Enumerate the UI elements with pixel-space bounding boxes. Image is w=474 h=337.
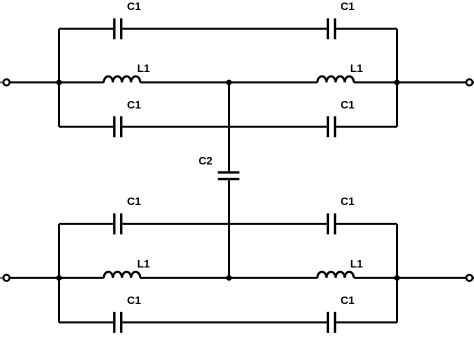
capacitor C1 (mid-left) plates <box>114 116 121 137</box>
wire: lower cap branch, right segment <box>336 126 397 128</box>
svg-text:C1: C1 <box>127 196 141 208</box>
svg-text:C1: C1 <box>340 295 354 307</box>
svg-text:C1: C1 <box>127 295 141 307</box>
wire: node F to port 4 <box>354 277 466 279</box>
wire: bottom rail mid segment (node D to node E to node F) <box>140 277 317 279</box>
node D junction dot <box>56 275 62 281</box>
wire: top-left vertical riser (node A) <box>58 29 60 127</box>
wire: bottom-left vertical riser (node D) <box>58 224 60 323</box>
svg-text:C1: C1 <box>127 1 141 13</box>
node C junction dot <box>394 80 400 86</box>
wire: lower section lower cap branch, middle segment <box>122 321 326 323</box>
svg-text:L1: L1 <box>137 259 150 271</box>
svg-text:L1: L1 <box>137 63 150 75</box>
wire left edge stub (port 3) <box>0 277 3 279</box>
wire: coupling riser from node B down to C2 <box>228 82 230 171</box>
capacitor C1 (lower-section bottom-right) plates <box>328 312 335 333</box>
wire: top-right vertical riser (node C) <box>396 29 398 127</box>
node A junction dot <box>56 80 62 86</box>
svg-text:L1: L1 <box>350 63 363 75</box>
capacitor C1 (mid-right) plates <box>328 116 335 137</box>
svg-text:C1: C1 <box>340 1 354 13</box>
inductor L1 (top-right), 4 humps <box>317 76 353 82</box>
inductor L1 (bottom-left), 4 humps <box>104 272 140 278</box>
wire: bottom-right vertical riser (node F) <box>396 224 398 323</box>
node E junction dot (bottom centre) <box>226 275 232 281</box>
svg-text:C1: C1 <box>127 100 141 112</box>
inductor L1 (top-left), 4 humps <box>104 76 140 82</box>
wire: upper cap branch, middle segment <box>122 28 326 30</box>
wire: lower cap branch, left segment <box>59 126 113 128</box>
wire left edge stub (port 1) <box>0 81 3 83</box>
wire: lower section lower cap branch, right segment <box>336 321 397 323</box>
capacitor C1 (lower-section upper-right) plates <box>328 213 335 234</box>
terminal port 2 (output, top-right) <box>466 79 472 85</box>
wire: top rail mid segment (node A area to node B) <box>140 81 317 83</box>
capacitor C2 plates <box>218 172 240 179</box>
wire: lower cap branch, middle segment <box>122 126 326 128</box>
inductor L1 (bottom-right), 4 humps <box>317 272 353 278</box>
capacitor C1 (lower-section upper-left) plates <box>114 213 121 234</box>
terminal port 3 (input, bottom-left) <box>3 275 9 281</box>
wire: upper cap branch, right segment <box>336 28 397 30</box>
capacitor C1 (upper-left) plates <box>114 18 121 39</box>
svg-text:C1: C1 <box>340 196 354 208</box>
wire right edge stub (port 2) <box>473 81 474 83</box>
capacitor C1 (lower-section bottom-left) plates <box>114 312 121 333</box>
wire: lower section lower cap branch, left segment <box>59 321 113 323</box>
node F junction dot <box>394 275 400 281</box>
wire: lower section upper cap branch, middle segment <box>122 223 326 225</box>
svg-text:L1: L1 <box>350 259 363 271</box>
wire: lower section upper cap branch, left segment <box>59 223 113 225</box>
svg-text:C2: C2 <box>198 155 212 167</box>
wire: lower section upper cap branch, right segment <box>336 223 397 225</box>
wire: port1 to node A <box>10 81 104 83</box>
terminal port 1 (input, top-left) <box>3 79 9 85</box>
capacitor C1 (upper-right) plates <box>328 18 335 39</box>
node B junction dot (top centre) <box>226 80 232 86</box>
wire: upper cap branch, left segment <box>59 28 113 30</box>
wire: node C to port 2 <box>354 81 466 83</box>
wire: coupling riser from C2 down to node E <box>228 180 230 278</box>
wire right edge stub (port 4) <box>473 277 474 279</box>
wire: port3 to node D <box>10 277 104 279</box>
terminal port 4 (output, bottom-right) <box>466 275 472 281</box>
svg-text:C1: C1 <box>340 100 354 112</box>
